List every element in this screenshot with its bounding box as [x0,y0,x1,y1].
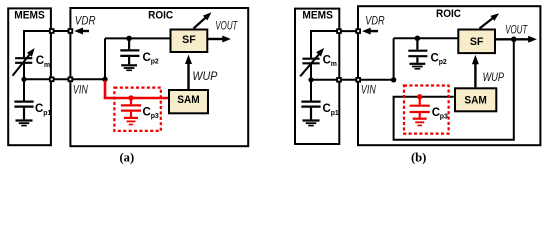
svg-text:p1: p1 [43,110,51,117]
node: MEMS junction (b) [308,77,313,82]
arrow through Cm (a) [13,48,35,76]
svg-text:C: C [143,107,151,119]
node: Cp2 tap (b) [415,36,421,42]
port: ROIC VIN (b) [355,77,361,83]
svg-text:m: m [331,61,337,68]
MEMS box (a) [8,8,51,145]
svg-text:(b): (b) [411,151,426,165]
wire: MEMS inner vertical upper (a) [23,30,25,57]
svg-text:MEMS: MEMS [14,10,45,22]
red dashed box (b) [404,86,449,134]
wire: VIN riser (b) [393,38,395,80]
capacitor Cp2 (a) [120,38,139,64]
node: VIN junction (b) [391,77,396,82]
wire: VDR link between ports (a) [52,30,71,32]
wire: MEMS inner top (b) [311,30,339,32]
feedback wire VOUT to SAM (b) [394,39,514,139]
svg-text:VDR: VDR [75,14,96,28]
gain arrow on SF (a) [194,12,212,28]
ROIC box (b) [358,6,540,145]
arrow through Cm (b) [300,48,324,76]
svg-text:VIN: VIN [73,83,88,97]
svg-text:C: C [143,52,151,64]
VDR arrow (b) [362,28,378,35]
svg-text:C: C [323,54,331,66]
svg-text:p3: p3 [440,114,448,121]
wire: junction down to Cp1 (b) [310,80,312,101]
capacitor Cm (a) [15,58,32,63]
ground of Cp3 (a) [124,118,138,125]
SF box (b) [458,30,495,54]
svg-text:MEMS: MEMS [302,10,333,22]
svg-text:ROIC: ROIC [436,8,461,20]
SAM box (b) [455,88,496,111]
port: MEMS VDR (b) [336,28,342,34]
wire: VDR link between ports (b) [339,30,358,32]
capacitor Cp2 (b) [408,38,427,63]
wire: VIN link between ports (a) [52,78,105,80]
port: MEMS VIN (b) [336,77,342,83]
capacitor Cp1 (a) [14,102,33,120]
svg-text:VOUT: VOUT [505,23,528,37]
wire: MEMS inner vertical upper (b) [310,30,312,58]
svg-text:SAM: SAM [464,94,487,106]
MEMS box (b) [295,9,339,144]
svg-text:p1: p1 [331,110,339,117]
wire: VIN link between ports (b) [339,79,394,81]
port: MEMS VIN (a) [49,77,55,83]
node: MEMS junction (a) [21,77,26,82]
wire: row to SF (b) [394,37,459,39]
svg-text:SAM: SAM [177,94,200,106]
wire: VIN riser (a) [104,38,106,79]
node: VIN junction (a) [102,77,107,82]
port: ROIC VDR (b) [355,28,361,34]
WUP arrow (a) [185,55,192,90]
svg-text:(a): (a) [119,150,134,164]
svg-text:WUP: WUP [192,69,217,83]
wire: Cm bottom to VIN row (a) [23,64,25,80]
svg-text:C: C [36,55,44,67]
svg-text:SF: SF [182,34,196,46]
svg-text:ROIC: ROIC [148,9,173,21]
node: VOUT junction (b) [511,37,517,43]
capacitor Cp1 (b) [301,102,320,120]
svg-text:SF: SF [470,36,484,48]
ground of Cp2 (b) [410,64,426,69]
ground of Cp3 (b) [413,119,427,126]
port: ROIC VDR (a) [68,28,74,34]
svg-text:p2: p2 [439,59,447,66]
port: MEMS VDR (a) [49,28,55,34]
SF box (a) [171,30,208,53]
red dashed box (a) [114,88,160,131]
VOUT wire and arrow (b) [495,36,537,43]
svg-text:p3: p3 [151,113,159,120]
VDR arrow (a) [74,28,89,35]
ROIC box (a) [70,8,248,146]
ground of Cp1 (b) [303,121,320,126]
capacitor Cp3 red (b) [410,97,430,118]
VOUT arrow (a) [208,36,231,43]
svg-text:WUP: WUP [483,70,504,84]
node: red Cp3 tap (a) [128,95,133,100]
svg-text:C: C [323,103,331,115]
svg-text:VIN: VIN [361,83,376,97]
svg-text:m: m [44,62,50,69]
node: red Cp3 tap (b) [417,94,422,99]
wire: Cm bottom to VIN row (b) [310,64,312,80]
ground of Cp1 (a) [16,121,33,126]
wire: row to SF (a) [105,37,171,39]
capacitor Cm (b) [302,59,319,64]
SAM box (a) [169,90,208,113]
wire: junction down to Cp1 (a) [23,79,25,100]
node: Cp2 tap (a) [126,36,132,42]
svg-text:C: C [431,52,439,64]
ground of Cp2 (a) [121,65,137,70]
gain arrow on SF (b) [480,13,500,28]
port: ROIC VIN (a) [68,77,74,83]
WUP arrow (b) [472,55,479,87]
red wire VIN to SAM (a) [105,81,168,99]
capacitor Cp3 red (a) [121,98,141,117]
wire: MEMS VIN row (a) [24,78,51,80]
wire: MEMS inner top (a) [24,30,51,32]
svg-text:C: C [35,103,43,115]
wire: MEMS VIN row (b) [311,79,339,81]
svg-text:VDR: VDR [365,14,385,28]
svg-text:VOUT: VOUT [215,19,238,33]
svg-text:p2: p2 [151,59,159,66]
